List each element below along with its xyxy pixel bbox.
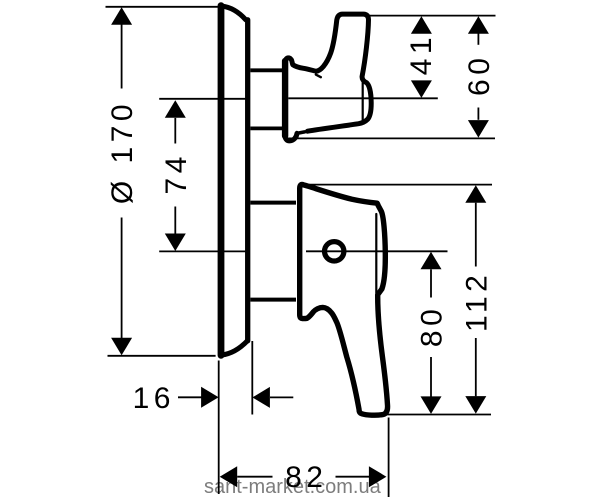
dimension 16 [178,387,293,408]
lever cap inner line [375,214,377,293]
plate left edge [218,6,225,356]
centerline knob (y=98.5) [159,98,247,100]
knob outline [285,14,371,131]
svg-text:74: 74 [160,152,193,194]
extension line 60 bottom (y=138.4) [287,137,495,139]
extension line vertical x=218.7 [218,361,220,495]
knob bottom dash [299,132,304,133]
centerline lever (y=251.4) [159,250,247,252]
knob base foot [285,64,297,141]
extension line vertical x=252.3 [251,341,253,415]
centerlines [159,98,447,251]
upper stem (diverter sleeve) [250,70,282,128]
diverter knob [285,14,371,141]
escutcheon plate [221,6,248,356]
knob base bar [282,61,288,136]
lever handle [300,184,388,415]
svg-text:60: 60 [463,54,496,96]
dimension 74 [165,100,186,251]
extension line plate bottom (y=355.8) [108,355,216,357]
svg-text:Ø 170: Ø 170 [106,100,139,204]
lower stem (lever sleeve) [250,203,296,300]
extension line vertical x=388.6 [388,418,390,498]
svg-text:80: 80 [416,305,449,347]
svg-text:82: 82 [285,461,327,494]
lever outline [300,184,388,415]
dimension 41 [411,16,432,98]
dimension 112 [465,185,486,413]
dimension 82 [220,466,387,487]
extension line knob top (y=15.6) [366,15,496,17]
svg-text:41: 41 [405,33,438,75]
plate top curve [222,6,246,20]
knob cap inner line [362,81,364,121]
svg-text:16: 16 [133,382,175,415]
dimension 80 [421,252,442,414]
extension line lever top (y=184.6) [306,184,492,186]
knob crease dash [316,75,321,78]
extension line top-left (y=6.8) [106,6,219,8]
dimension Ø170 [111,7,132,355]
extension line bottom (y=414.5) [387,414,491,416]
plate bottom curve [222,341,248,356]
svg-text:112: 112 [460,271,493,332]
dimension 60 [468,16,489,137]
plate right edge [245,20,250,341]
screw hole circle [325,242,344,261]
